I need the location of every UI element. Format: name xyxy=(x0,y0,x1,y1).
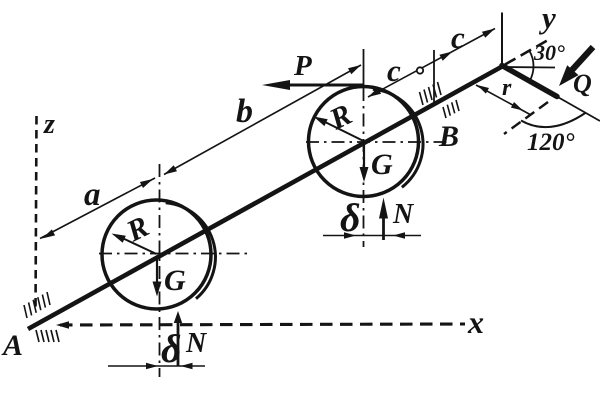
node small circle marker on c line xyxy=(417,67,423,73)
wire: dimension line r xyxy=(476,85,531,115)
wire: dashed axis through crank end xyxy=(504,102,548,134)
wire: extension line at corner xyxy=(501,13,503,67)
wire: 120 degree arc xyxy=(521,113,586,128)
svg-text:B: B xyxy=(438,120,459,153)
dimension delta upper wheel xyxy=(323,235,421,237)
svg-text:c: c xyxy=(451,20,465,55)
wire: dimension line b xyxy=(164,65,361,175)
svg-text:a: a xyxy=(84,177,101,213)
svg-text:r: r xyxy=(502,75,512,101)
radius R arrow lower wheel xyxy=(119,237,157,255)
wire: lower wheel vertical centerline xyxy=(159,164,161,377)
force G arrow lower wheel xyxy=(156,256,158,283)
wheel 2 rim second arc xyxy=(373,89,423,187)
wheel 2 (upper roller) xyxy=(309,87,419,197)
svg-text:30°: 30° xyxy=(533,40,565,65)
svg-text:Q: Q xyxy=(573,69,592,98)
svg-text:120°: 120° xyxy=(527,129,575,156)
wire: upper wheel horizontal centerline xyxy=(306,141,448,143)
wire: crank arm (thick) xyxy=(502,66,557,97)
wheel 1 (lower roller) xyxy=(102,200,211,309)
svg-text:N: N xyxy=(392,199,415,230)
support B hatching above xyxy=(420,92,424,105)
wire: horizontal reference line at corner xyxy=(503,66,555,69)
wire: dimension line c-c xyxy=(368,29,495,98)
wire: extension line at upper wheel top xyxy=(363,49,365,88)
svg-text:δ: δ xyxy=(340,195,361,240)
svg-text:P: P xyxy=(293,50,312,82)
wire: x axis dashed xyxy=(60,324,465,325)
wire: y axis dashed xyxy=(505,40,549,65)
svg-text:c: c xyxy=(387,53,401,88)
force P arrow xyxy=(290,84,364,87)
wire: dimension line a xyxy=(40,178,155,239)
wire: extension line at bearing B xyxy=(433,50,435,104)
force N arrow lower wheel xyxy=(177,322,180,366)
force N arrow upper wheel xyxy=(382,217,385,240)
wire: 30 degree arc at corner xyxy=(529,51,533,81)
force Q arrow (thick) xyxy=(572,47,593,70)
svg-text:G: G xyxy=(371,148,393,181)
wire: upper wheel vertical centerline xyxy=(363,88,365,247)
wire: crank extension thin xyxy=(556,96,600,121)
wire: lower wheel horizontal centerline xyxy=(99,253,249,255)
svg-text:N: N xyxy=(185,328,208,359)
node A extension: z axis dashed xyxy=(36,116,37,312)
wire: shaft A to corner (thick beam) xyxy=(28,66,503,329)
dimension delta lower wheel xyxy=(108,365,205,367)
support A hatching below xyxy=(36,330,39,342)
radius R arrow upper wheel xyxy=(321,120,364,141)
svg-text:A: A xyxy=(1,329,23,362)
force G arrow upper wheel xyxy=(363,143,365,168)
support B hatching below xyxy=(443,107,446,118)
support A hatching above xyxy=(24,305,27,318)
svg-text:G: G xyxy=(164,264,186,297)
svg-text:b: b xyxy=(236,93,253,130)
svg-text:z: z xyxy=(43,109,55,140)
wheel 1 rim second arc xyxy=(166,203,216,299)
svg-text:δ: δ xyxy=(161,326,182,371)
svg-text:x: x xyxy=(467,304,484,340)
